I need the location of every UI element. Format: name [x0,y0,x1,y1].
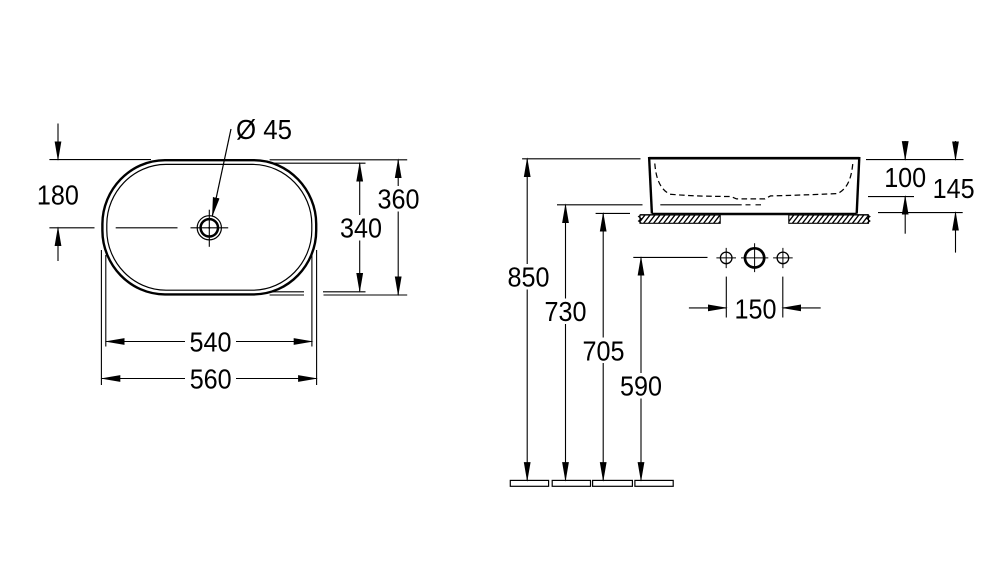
dimension 705 extension line [596,212,630,214]
svg-text:180: 180 [37,179,79,210]
countertop right break mark [867,215,870,224]
dimension 150 left arrow with tail [689,307,726,309]
countertop top surface line [640,214,869,216]
faucet hole left circle [720,252,732,264]
tap hole crosshair vertical [208,210,210,247]
floor symbol slab 1 [510,480,548,486]
dimension 100 lower arrow with tail [904,196,906,233]
svg-text:360: 360 [378,184,420,215]
dimension 180 lower arrow with tail [57,228,59,261]
svg-text:705: 705 [583,335,625,366]
dimension 540 line with arrows [106,341,312,343]
leader line for tap hole diameter [212,129,231,216]
basin inner bowl dashed profile [655,164,853,199]
dimension 150 extension line right [782,277,784,318]
dimension 590 text [617,371,666,402]
dimension 340 extension line top [272,162,366,164]
svg-text:540: 540 [190,326,232,357]
dimension 705 text [579,335,628,366]
dimension 590 extension line [633,256,707,258]
dimension 145 lower arrow with tail [955,212,957,252]
dimension 730 text [541,296,590,327]
svg-text:150: 150 [735,293,777,324]
dimension 730 line with arrows [565,205,567,481]
basin inner bottom solid line [660,204,741,206]
countertop left break mark [639,215,642,224]
countertop cross-section right hatched block [782,215,873,223]
floor symbol slab 2 [552,480,590,486]
dimension 340 extension line bottom [272,291,366,293]
tap hole center dot [208,227,210,229]
dimension 730 extension line [557,204,643,206]
faucet hole left crosshair [716,248,736,268]
basin outer rim (top view oval) [102,160,316,294]
svg-text:850: 850 [508,262,550,293]
svg-text:340: 340 [340,213,382,244]
dimension 360 text [374,184,423,215]
dimension 560 line with arrows [102,378,316,380]
countertop cross-section left hatched block [634,215,725,223]
dimension 850 extension line [522,158,640,160]
dimension 100 upper arrow with tail [904,141,906,159]
faucet hole right crosshair [773,248,793,268]
basin inner bottom center dashes [746,204,762,206]
dimension 150 right arrow with tail [783,307,821,309]
tap hole inner circle [201,219,218,236]
svg-text:590: 590 [620,371,662,402]
svg-text:560: 560 [190,363,232,394]
dimension 540 text [185,326,236,357]
dimension 590 line with arrows [640,257,642,480]
dimension 705 line with arrows [602,213,604,480]
floor symbol slab 4 [635,480,673,486]
dimension 180 extension line top [49,159,151,161]
svg-text:730: 730 [545,296,587,327]
dimension 145 extension line bottom [878,212,963,214]
dimension 850 text [504,262,553,293]
floor symbol slab 3 [593,480,633,486]
dimension 340 text [337,213,386,244]
dimension 100 extension line bottom [868,196,914,198]
tap hole outer circle [197,216,221,240]
svg-text:Ø 45: Ø 45 [236,114,292,145]
dimension 360 line with arrows [397,160,399,295]
basin body outline [649,157,859,214]
faucet hole right circle [777,252,789,264]
faucet hole center crosshair [741,243,768,272]
dimension 360 extension line bottom [270,294,408,296]
dimension 540 extension line left [105,255,107,347]
dimension 850 line with arrows [526,159,528,481]
dimension 560 extension line left [100,250,102,385]
dimension 180 extension line bottom [49,227,94,229]
dimension 145 upper arrow with tail [955,141,957,160]
svg-text:145: 145 [933,173,975,204]
svg-text:100: 100 [884,162,926,193]
centerline dash left of hole [116,227,178,229]
dimension 180 upper arrow with tail [57,124,59,160]
dimension 540 extension line right [311,255,313,347]
dimension 560 text [185,363,236,394]
dimension 340 line with arrows [359,163,361,291]
tap hole crosshair horizontal [191,227,229,229]
basin inner rim (top view oval) [107,164,312,290]
faucet hole center circle [745,248,764,267]
dimension 360 extension line top [270,159,408,161]
dimension 560 extension line right [316,250,318,385]
dimension 150 extension line left [725,277,727,318]
dimension 145 extension line top [866,159,964,161]
